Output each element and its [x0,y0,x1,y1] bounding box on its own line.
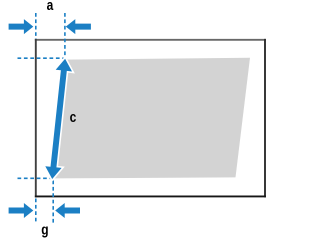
guide line: horizontal dashed at image top edge [18,57,64,59]
dimension arrow a (right, pointing left) [66,19,91,34]
dimension arrow g (right, pointing left) [55,203,80,218]
dimension arrow a (left, pointing right) [9,19,34,34]
projected image (gray parallelogram) [53,58,250,179]
screen frame [35,39,266,198]
guide line: vertical dashed at screen left edge (bottom) [35,199,37,225]
svg-text:g: g [41,221,48,238]
svg-text:c: c [70,109,77,126]
guide line: vertical dashed at image bottom-left corner [52,181,54,225]
svg-text:a: a [47,0,54,13]
guide line: vertical dashed at image top-left corner [64,13,66,58]
dimension double arrow c (image left edge height) [45,59,72,179]
dimension arrow g (left, pointing right) [9,203,34,218]
guide line: vertical dashed at screen left edge (top) [35,13,37,39]
guide line: horizontal dashed at image bottom edge [18,177,51,179]
